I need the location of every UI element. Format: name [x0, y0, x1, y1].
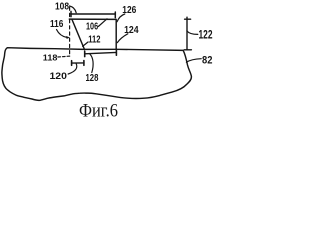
svg-text:116: 116 — [50, 19, 63, 30]
svg-text:120: 120 — [50, 71, 67, 82]
svg-text:122: 122 — [199, 29, 213, 42]
svg-text:106: 106 — [86, 22, 98, 33]
svg-text:112: 112 — [88, 34, 101, 45]
svg-text:124: 124 — [124, 25, 139, 36]
svg-text:128: 128 — [86, 73, 99, 84]
svg-text:82: 82 — [202, 55, 212, 67]
svg-text:108: 108 — [55, 2, 69, 13]
svg-text:Фиг.6: Фиг.6 — [79, 101, 118, 121]
svg-text:118: 118 — [43, 53, 58, 63]
svg-text:126: 126 — [122, 5, 136, 16]
